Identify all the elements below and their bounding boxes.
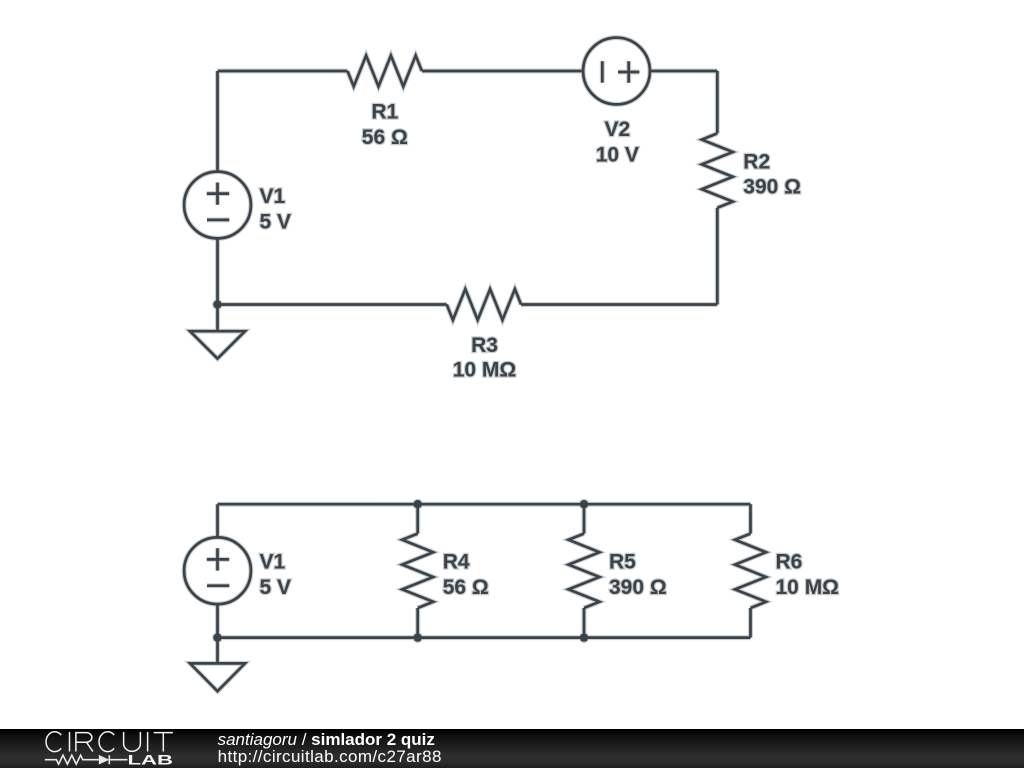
- voltage source V1 (parallel circuit): [184, 537, 251, 604]
- svg-text:LAB: LAB: [128, 751, 174, 767]
- svg-text:R3: R3: [471, 334, 498, 357]
- resistor R3: [447, 289, 521, 320]
- svg-text:56 Ω: 56 Ω: [362, 126, 408, 149]
- svg-text:http://circuitlab.com/c27ar88: http://circuitlab.com/c27ar88: [218, 747, 442, 766]
- svg-text:390 Ω: 390 Ω: [609, 576, 667, 599]
- svg-text:R1: R1: [371, 101, 398, 124]
- wire: bottom rail right segment: [521, 303, 717, 306]
- svg-text:R5: R5: [609, 550, 636, 573]
- wire: left rail of parallel circuit: [216, 504, 219, 637]
- wire: top rail of parallel circuit: [218, 503, 751, 506]
- svg-text:V1: V1: [260, 185, 286, 208]
- wire: right rail upper segment: [716, 71, 719, 133]
- svg-text:R6: R6: [776, 550, 803, 573]
- logo text CIRCUIT (drawn as thin strokes): [46, 732, 173, 752]
- svg-text:R2: R2: [743, 150, 770, 173]
- resistor R2: [702, 133, 733, 207]
- ground symbol (parallel circuit): [190, 638, 245, 692]
- label halo underlayer: [260, 101, 840, 599]
- svg-text:390 Ω: 390 Ω: [743, 176, 801, 199]
- wire: bottom rail of parallel circuit: [218, 636, 751, 639]
- wire: R6 column upper lead: [749, 504, 752, 533]
- svg-text:R4: R4: [443, 550, 470, 573]
- svg-text:5 V: 5 V: [260, 576, 292, 599]
- wire: top rail left segment: [218, 70, 348, 73]
- wire: top rail middle segment: [422, 70, 583, 73]
- resistor R1: [348, 56, 422, 87]
- node: junction dot top rail at R4: [414, 500, 422, 508]
- svg-text:10 V: 10 V: [596, 144, 639, 167]
- svg-text:5 V: 5 V: [260, 210, 292, 233]
- logo glyph: wire with resistor and diode: [45, 755, 128, 764]
- svg-text:56 Ω: 56 Ω: [443, 576, 489, 599]
- node: junction dot bottom rail at R4: [414, 633, 422, 641]
- resistor R5: [569, 534, 600, 608]
- node: junction dot top circuit ground: [213, 300, 221, 308]
- wire: R4 column upper lead: [416, 504, 419, 533]
- wire: bottom rail left segment: [218, 303, 447, 306]
- svg-text:10 MΩ: 10 MΩ: [776, 576, 840, 599]
- wire: right rail lower segment: [716, 208, 719, 305]
- resistor R4: [402, 534, 433, 608]
- voltage source V2: [583, 38, 650, 105]
- wire: R5 column upper lead: [583, 504, 586, 533]
- schematic soft halo underlayer: [184, 38, 766, 692]
- wire: top rail right segment: [650, 70, 717, 73]
- node: junction dot top rail at R5: [580, 500, 588, 508]
- resistor R6: [735, 534, 766, 608]
- wire: left rail of top circuit: [216, 71, 219, 305]
- wire: R5 column lower lead: [583, 608, 586, 638]
- svg-text:10 MΩ: 10 MΩ: [453, 358, 517, 381]
- wire: R6 column lower lead: [749, 608, 752, 638]
- ground symbol (top circuit): [190, 305, 245, 359]
- wire: R4 column lower lead: [416, 608, 419, 638]
- svg-text:V2: V2: [604, 118, 630, 141]
- logo diode triangle: [99, 755, 110, 765]
- node: junction dot bottom rail at ground: [213, 633, 221, 641]
- voltage source V1 (top circuit): [184, 172, 251, 239]
- svg-text:V1: V1: [260, 551, 286, 574]
- node: junction dot bottom rail at R5: [580, 633, 588, 641]
